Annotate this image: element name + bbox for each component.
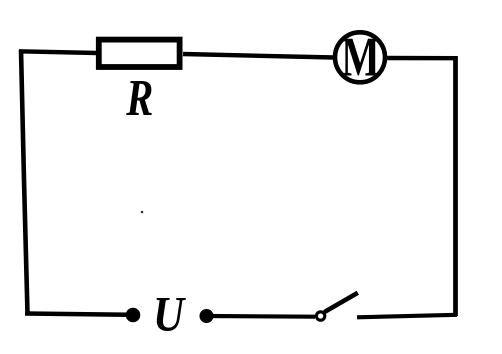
switch S lever <box>324 293 358 312</box>
svg-text:M: M <box>341 25 380 88</box>
svg-text:R: R <box>125 69 153 127</box>
resistor R <box>99 40 180 67</box>
wire right-dot to switch <box>207 314 315 319</box>
terminal dot left <box>126 308 141 323</box>
wire motor to top-right corner <box>386 56 457 61</box>
switch S pivot circle <box>316 312 324 320</box>
wire right vertical <box>453 56 458 316</box>
wire resistor to motor <box>183 54 334 58</box>
wire top-left <box>19 51 97 53</box>
svg-text:U: U <box>153 288 186 342</box>
terminal dot right <box>200 309 214 323</box>
motor M circle <box>335 32 385 82</box>
wire left vertical <box>21 50 28 314</box>
wire bottom-right <box>357 315 457 318</box>
wire bottom-left <box>25 314 132 315</box>
